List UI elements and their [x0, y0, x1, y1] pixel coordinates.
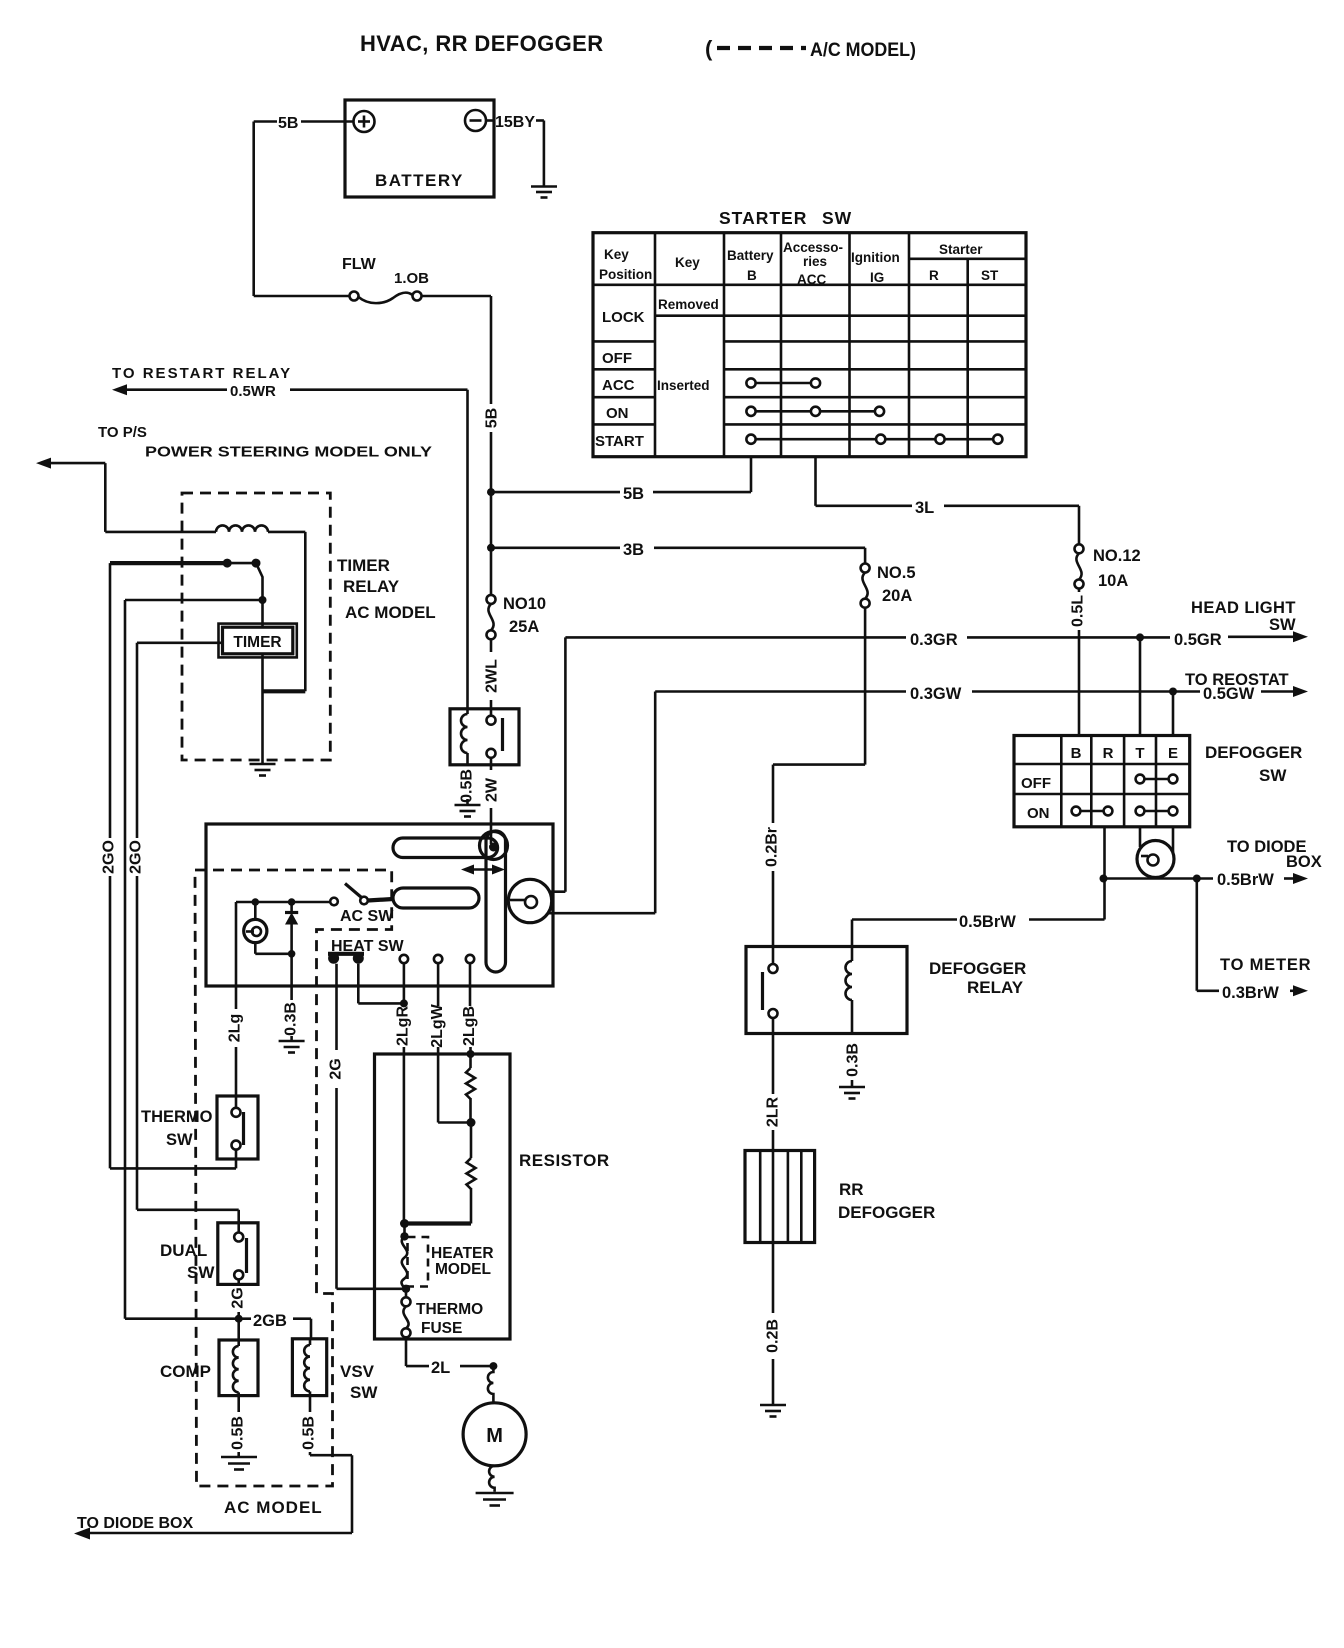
node lever pivot: [489, 843, 498, 852]
svg-text:Key: Key: [604, 247, 629, 262]
svg-text:NO.5: NO.5: [877, 564, 916, 582]
svg-text:3B: 3B: [623, 541, 644, 559]
wire 0.5BrW to diode box: [1104, 838, 1322, 889]
starter switch table: [593, 208, 1026, 457]
svg-text:FLW: FLW: [342, 256, 377, 273]
node heater element bottom: [402, 1285, 410, 1293]
wire to P/S power steering: [36, 424, 432, 532]
svg-text:FUSE: FUSE: [421, 1320, 462, 1337]
fuse NO.10 25A: [487, 595, 547, 639]
svg-text:0.5B: 0.5B: [301, 1416, 318, 1450]
svg-text:TO DIODE BOX: TO DIODE BOX: [77, 1515, 193, 1532]
node 0.3GW to defogger E: [1169, 688, 1177, 696]
ground RR defogger: [760, 1405, 786, 1417]
svg-text:0.3B: 0.3B: [845, 1043, 862, 1077]
wire 15BY battery negative: [486, 114, 544, 186]
svg-text:25A: 25A: [509, 618, 539, 636]
svg-text:A/C MODEL): A/C MODEL): [810, 39, 916, 61]
svg-text:HVAC, RR DEFOGGER: HVAC, RR DEFOGGER: [360, 31, 604, 56]
coil defogger relay: [846, 947, 852, 1034]
wire 0.3GR drop to blower lamp: [549, 637, 565, 891]
svg-text:2LgW: 2LgW: [429, 1003, 446, 1047]
node diode lamp bottom junction: [288, 950, 296, 958]
heat switch: [328, 938, 474, 964]
lever pivot circle: [480, 832, 508, 860]
wire 0.2Br from fuse NO.5 to defogger relay: [764, 608, 866, 964]
wire 0.5L to defogger sw B: [1070, 589, 1087, 736]
node 2LgR junction: [400, 999, 408, 1007]
control lever slot lower: [393, 888, 479, 908]
wire timer left lead: [137, 641, 223, 644]
svg-text:2GO: 2GO: [101, 840, 118, 874]
svg-text:POWER STEERING MODEL ONLY: POWER STEERING MODEL ONLY: [145, 444, 432, 461]
ac indicator lamp: [244, 902, 292, 954]
node 0.5BrW junction R lead: [1100, 875, 1108, 883]
wire 5B battery positive: [254, 115, 354, 296]
node 0.5BrW junction meter branch: [1193, 875, 1201, 883]
svg-text:TO P/S: TO P/S: [98, 424, 147, 441]
ac switch: [236, 884, 394, 926]
svg-text:RELAY: RELAY: [343, 577, 400, 596]
wire 2G dual sw to 2GB node: [230, 1279, 247, 1340]
svg-text:1.OB: 1.OB: [394, 270, 429, 287]
svg-text:AC MODEL: AC MODEL: [345, 603, 436, 622]
wire defogger T lead: [1139, 637, 1142, 735]
wire 0.3BrW to meter: [1197, 879, 1312, 1003]
wire 0.5B heater relay ground: [459, 769, 476, 804]
svg-text:SW: SW: [187, 1263, 215, 1282]
svg-text:R: R: [929, 268, 939, 283]
RR defogger element: [745, 1151, 935, 1243]
node 2GB junction: [235, 1315, 243, 1323]
coil heater relay: [461, 712, 467, 765]
svg-text:HEATER: HEATER: [431, 1245, 494, 1262]
svg-text:0.5B: 0.5B: [230, 1416, 247, 1450]
svg-text:LOCK: LOCK: [602, 309, 645, 326]
svg-text:2G: 2G: [328, 1058, 345, 1079]
ac model dashed boundary: [195, 870, 392, 1486]
wire 0.5WR to restart relay: [112, 365, 468, 712]
svg-text:0.5GR: 0.5GR: [1174, 631, 1222, 649]
svg-text:0.5BrW: 0.5BrW: [1217, 871, 1274, 889]
defogger sw ON row contacts: [1072, 807, 1178, 816]
blower motor M: [463, 1366, 526, 1492]
wire 3L from starter sw ACC: [816, 457, 1080, 545]
diode D1: [285, 902, 298, 954]
wire 2LgB: [461, 963, 478, 1068]
wire 0.5B vsv to diode box: [74, 1396, 352, 1540]
svg-text:STARTER: STARTER: [719, 208, 807, 228]
svg-text:2Lg: 2Lg: [227, 1014, 244, 1042]
svg-text:OFF: OFF: [602, 350, 632, 367]
defogger sw OFF row contacts: [1136, 775, 1178, 784]
starter sw ON row contacts: [746, 407, 884, 416]
thermo fuse: [402, 1289, 484, 1338]
control lever slot vertical: [486, 831, 506, 972]
svg-text:0.2B: 0.2B: [765, 1319, 782, 1353]
svg-text:ACC: ACC: [797, 272, 826, 287]
svg-text:ries: ries: [803, 254, 827, 269]
wire bus3 2GO to dual sw: [128, 643, 239, 1233]
ground defogger relay: [839, 1087, 865, 1099]
svg-text:Position: Position: [599, 267, 652, 282]
svg-text:SW: SW: [1259, 766, 1287, 785]
svg-text:AC MODEL: AC MODEL: [224, 1498, 323, 1517]
fusible link FLW 1.0B: [254, 256, 491, 303]
svg-text:5B: 5B: [278, 115, 298, 132]
svg-text:DUAL: DUAL: [160, 1241, 207, 1260]
svg-text:HEAD LIGHT: HEAD LIGHT: [1191, 599, 1296, 617]
svg-text:10A: 10A: [1098, 572, 1128, 590]
svg-text:SW: SW: [1269, 616, 1296, 634]
svg-text:SW: SW: [350, 1383, 378, 1402]
svg-text:2W: 2W: [484, 777, 501, 802]
wire bus2 to 2GB: [124, 600, 127, 1319]
node lamp tap: [252, 898, 260, 906]
svg-text:0.5WR: 0.5WR: [230, 383, 276, 400]
resistor R1: [466, 1068, 475, 1123]
resistor R2: [467, 1123, 476, 1224]
svg-text:0.5B: 0.5B: [459, 769, 476, 803]
svg-text:Key: Key: [675, 255, 700, 270]
wire 2L to blower motor: [406, 1337, 497, 1377]
wire 3B to fuse NO.5: [491, 541, 865, 564]
svg-text:BOX: BOX: [1286, 853, 1322, 871]
wire defogger R lead down: [1103, 827, 1106, 920]
svg-text:COMP: COMP: [160, 1362, 211, 1381]
vsv solenoid coil: [292, 1339, 378, 1402]
node 5B branch: [487, 488, 495, 496]
svg-text:TO RESTART RELAY: TO RESTART RELAY: [112, 365, 292, 382]
wire 5B to starter sw B terminal: [491, 457, 751, 503]
svg-text:Removed: Removed: [658, 297, 719, 312]
svg-text:NO.12: NO.12: [1093, 547, 1141, 565]
defogger relay: [746, 947, 1026, 1034]
svg-text:DEFOGGER: DEFOGGER: [1205, 743, 1302, 762]
svg-text:2LR: 2LR: [765, 1096, 782, 1127]
svg-text:ST: ST: [981, 268, 999, 283]
wire 0.3B defogger relay ground: [845, 1043, 862, 1086]
svg-text:T: T: [1135, 745, 1144, 762]
svg-text:TO REOSTAT: TO REOSTAT: [1185, 671, 1289, 689]
ground blower motor: [476, 1493, 514, 1506]
svg-text:0.2Br: 0.2Br: [764, 827, 781, 867]
defogger sw: [1014, 736, 1302, 827]
ground ac lamp diode: [279, 1041, 305, 1053]
svg-text:Ignition: Ignition: [851, 250, 900, 265]
svg-text:IG: IG: [870, 270, 884, 285]
svg-text:2GB: 2GB: [253, 1312, 287, 1330]
blower lamp: [508, 879, 551, 922]
heater element heater model: [400, 1224, 493, 1289]
wire 2LR to RR defogger: [765, 1018, 782, 1151]
legend A/C MODEL dashed: [705, 36, 916, 61]
svg-text:5B: 5B: [484, 408, 501, 428]
svg-text:E: E: [1168, 745, 1178, 762]
svg-text:SW: SW: [822, 208, 852, 228]
svg-text:2LgB: 2LgB: [461, 1006, 478, 1046]
compressor clutch coil COMP: [160, 1340, 258, 1396]
svg-text:TIMER: TIMER: [233, 634, 281, 651]
svg-text:(: (: [705, 36, 713, 61]
node R1 R2 junction: [467, 1118, 476, 1127]
svg-text:Inserted: Inserted: [657, 378, 710, 393]
svg-text:RELAY: RELAY: [967, 978, 1024, 997]
svg-text:Accesso-: Accesso-: [783, 240, 843, 255]
svg-text:DEFOGGER: DEFOGGER: [929, 959, 1026, 978]
svg-text:TIMER: TIMER: [337, 556, 390, 575]
heater relay: [450, 709, 519, 765]
wire 2LgR: [395, 963, 412, 1223]
svg-text:THERMO: THERMO: [416, 1301, 483, 1318]
timer relay labels: [337, 556, 436, 622]
wire timer to left bus 2: [125, 599, 263, 602]
dual sw: [160, 1223, 258, 1285]
wire 2WL label on trunk: [484, 639, 501, 715]
wire 2Lg to thermo sw: [227, 902, 244, 1108]
timer relay dashed box: [182, 493, 330, 760]
thermo sw: [141, 1096, 258, 1159]
svg-text:20A: 20A: [882, 587, 912, 605]
wire 0.5BrW from defogger relay coil: [852, 913, 1105, 947]
lever direction arrow: [461, 865, 505, 875]
wire heat sw second contact jog: [358, 964, 404, 1004]
wire 0.3GW / 0.5GW to rheostat: [655, 671, 1308, 703]
node 2LgB at resistor box: [467, 1050, 475, 1058]
node 0.3GR to defogger T: [1136, 633, 1144, 641]
fuse NO.12 10A: [1075, 544, 1141, 590]
coil timer relay: [216, 525, 305, 691]
svg-text:2WL: 2WL: [484, 659, 501, 693]
svg-text:OFF: OFF: [1021, 775, 1051, 792]
svg-text:DEFOGGER: DEFOGGER: [838, 1203, 935, 1222]
battery B1: [345, 100, 494, 197]
svg-text:5B: 5B: [623, 485, 644, 503]
wire timer bottom to ground: [261, 654, 264, 763]
svg-text:Battery: Battery: [727, 248, 774, 263]
svg-text:2LgR: 2LgR: [395, 1006, 412, 1046]
svg-text:2L: 2L: [431, 1359, 450, 1377]
svg-text:SW: SW: [166, 1131, 193, 1149]
svg-text:MODEL: MODEL: [435, 1261, 491, 1278]
starter sw START row contacts: [746, 435, 1002, 444]
svg-text:AC SW: AC SW: [340, 908, 394, 925]
svg-text:0.3GR: 0.3GR: [910, 631, 958, 649]
svg-text:2G: 2G: [230, 1287, 247, 1308]
svg-text:15BY: 15BY: [495, 114, 535, 131]
svg-text:0.3GW: 0.3GW: [910, 685, 962, 703]
ground battery: [531, 187, 557, 198]
wire resistor output bar: [405, 1221, 472, 1225]
svg-text:NO10: NO10: [503, 595, 546, 613]
svg-text:R: R: [1103, 745, 1114, 762]
indicator lamp defogger sw: [1137, 827, 1174, 878]
svg-text:3L: 3L: [915, 499, 934, 517]
starter sw ACC row contacts: [746, 378, 820, 387]
ground timer relay: [250, 764, 276, 776]
node diode tap: [288, 898, 296, 906]
svg-text:START: START: [595, 433, 644, 450]
svg-text:2GO: 2GO: [128, 840, 145, 874]
node 3B branch: [487, 544, 495, 552]
svg-text:RR: RR: [839, 1180, 864, 1199]
resistor box: [375, 1054, 610, 1339]
svg-text:0.5BrW: 0.5BrW: [959, 913, 1016, 931]
svg-text:BATTERY: BATTERY: [375, 171, 464, 190]
fuse NO.5 20A: [861, 564, 916, 608]
wire 2G heat sw to heater element: [328, 964, 407, 1289]
wire 0.2B RR defogger ground: [765, 1243, 782, 1405]
wire defogger E lead: [1172, 692, 1175, 736]
svg-text:M: M: [486, 1425, 503, 1447]
timer relay contacts: [110, 559, 263, 628]
wire 0.3GR / 0.5GR to head light sw: [565, 599, 1308, 649]
svg-text:0.3BrW: 0.3BrW: [1222, 984, 1279, 1002]
wire 0.5B comp ground: [230, 1396, 247, 1456]
svg-text:TO METER: TO METER: [1220, 956, 1311, 974]
svg-text:ON: ON: [606, 405, 629, 422]
wire 0.3B to ground: [283, 954, 300, 1040]
svg-text:VSV: VSV: [340, 1362, 375, 1381]
svg-text:THERMO: THERMO: [141, 1108, 213, 1126]
node timer wire junction: [259, 596, 267, 604]
svg-text:ACC: ACC: [602, 377, 635, 394]
wire thermo sw to bus1: [110, 1150, 236, 1169]
node resistor chain output: [400, 1219, 409, 1228]
svg-text:B: B: [1071, 745, 1082, 762]
wire 2LgW: [429, 963, 472, 1122]
wire 5B main trunk: [484, 296, 501, 595]
svg-text:0.3B: 0.3B: [283, 1002, 300, 1036]
timer unit box: [219, 624, 297, 658]
ground comp: [221, 1457, 257, 1470]
wire 2W relay to control lever: [484, 758, 501, 844]
wire bus1 2GO: [101, 563, 118, 1168]
svg-text:B: B: [747, 268, 757, 283]
wire 2GB to vsv sw: [125, 1312, 311, 1339]
svg-text:RESISTOR: RESISTOR: [519, 1151, 610, 1170]
control lever slot upper: [393, 838, 498, 858]
svg-text:Starter: Starter: [939, 242, 983, 257]
ground heater relay: [455, 805, 481, 817]
svg-text:ON: ON: [1027, 805, 1050, 822]
wire 0.3GW drop to blower lamp: [548, 692, 655, 914]
heater control assembly box: [206, 824, 553, 986]
svg-text:0.5L: 0.5L: [1070, 595, 1087, 627]
